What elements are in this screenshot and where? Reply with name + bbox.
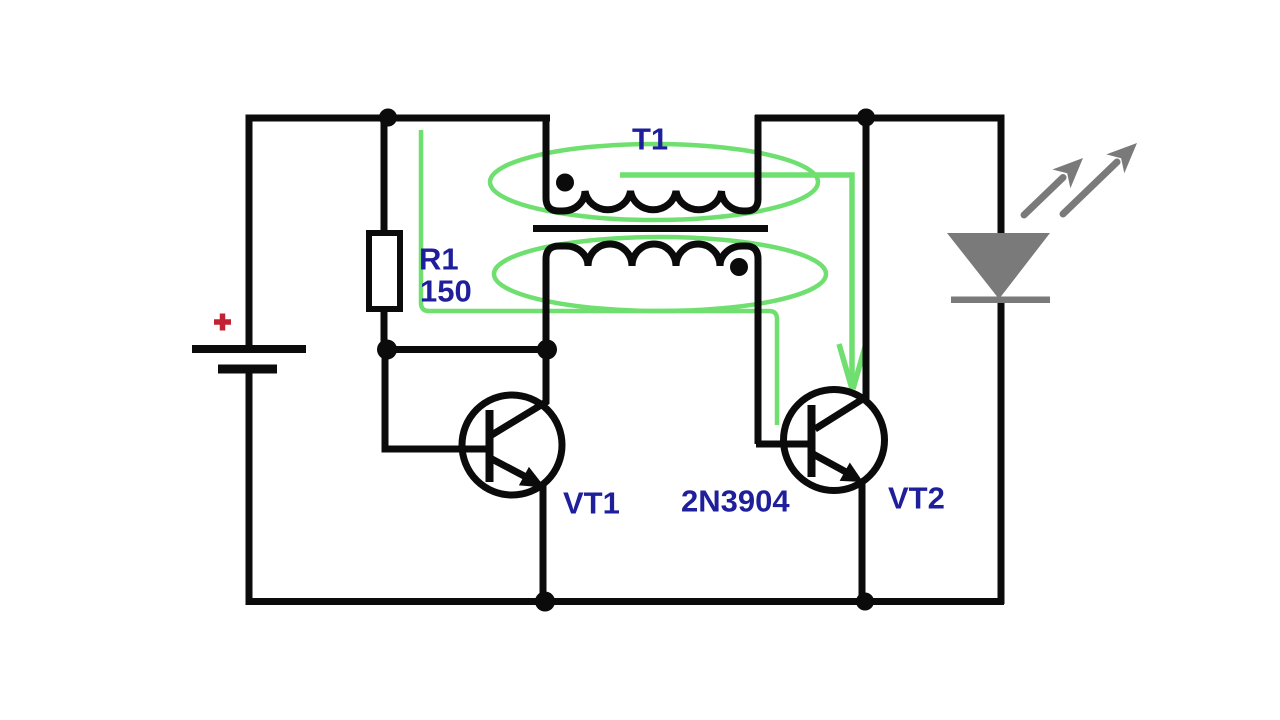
resistor R1 top lead [381, 115, 388, 233]
transistor VT1 circle [462, 395, 562, 495]
transistor VT2 emitter arrowhead [840, 463, 863, 483]
battery plus sign [214, 314, 231, 331]
LED light arrow 2 shaft [1063, 162, 1117, 214]
junction dot at top rail VT2 collector [857, 109, 875, 127]
svg-text:150: 150 [420, 274, 472, 309]
green feedback path from R1 node to VT2 base [421, 130, 777, 425]
transformer secondary phase dot [730, 258, 748, 276]
wire: LED cathode down to bottom rail [998, 299, 1005, 604]
wire: VT1 collector from node [490, 346, 546, 436]
battery B1 negative plate [218, 365, 277, 374]
transistor VT2 circle [784, 390, 885, 491]
resistor R1 body [369, 233, 400, 309]
wire: VT1 emitter to bottom rail [540, 486, 547, 604]
wire: VT2 collector from top rail [815, 115, 866, 429]
wire: VT2 emitter to bottom rail [859, 483, 866, 604]
junction dot at R1 top [379, 109, 397, 127]
junction dot at R1 bottom node [377, 340, 397, 360]
svg-text:R1: R1 [419, 242, 459, 277]
wire: VT2 base from secondary [756, 441, 812, 448]
LED D1 cathode bar [951, 297, 1050, 304]
wire: VT1 base from R1 node [385, 346, 490, 449]
wire: top rail from transformer to LED anode corner [755, 118, 1001, 236]
svg-text:2N3904: 2N3904 [681, 484, 790, 519]
transformer T1 primary winding [546, 115, 758, 211]
wire: R1 bottom node to collector node of VT1 [384, 346, 550, 353]
green flux ellipse around primary winding [490, 144, 818, 220]
transistor VT1 base bar [486, 410, 494, 482]
battery B1 positive plate [192, 345, 306, 353]
LED light arrow 2 head [1106, 143, 1137, 173]
transformer T1 core [533, 225, 768, 232]
LED light arrow 1 shaft [1024, 178, 1063, 216]
junction dot at VT1 emitter bottom rail [535, 592, 555, 612]
LED D1 triangle [947, 233, 1050, 299]
junction dot at VT1 collector node [537, 340, 557, 360]
transistor VT1 emitter [490, 458, 526, 477]
transistor VT2 base bar [808, 405, 816, 477]
svg-text:VT1: VT1 [563, 486, 620, 521]
transformer primary phase dot [556, 174, 574, 192]
green current arrow line into VT2 collector [620, 175, 852, 383]
svg-text:VT2: VT2 [888, 481, 945, 516]
green arrowhead at VT2 [839, 344, 865, 389]
junction dot at VT2 emitter bottom rail [856, 593, 874, 611]
wire: battery - down and bottom rail [249, 369, 1004, 602]
resistor R1 bottom lead [381, 309, 388, 352]
green flux ellipse around secondary winding [494, 237, 826, 311]
transistor VT1 emitter arrowhead [519, 467, 545, 488]
wire: battery + up and top rail to transformer [249, 118, 550, 345]
transformer T1 secondary winding [546, 244, 758, 444]
LED light arrow 1 head [1052, 158, 1083, 188]
svg-text:T1: T1 [632, 122, 668, 157]
transistor VT2 emitter [813, 454, 846, 472]
